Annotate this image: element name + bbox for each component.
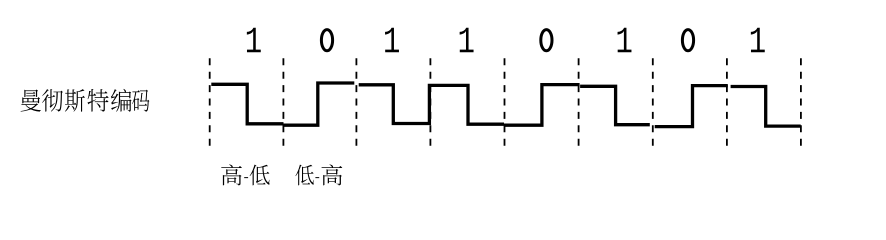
dashed bit boundary line 3 <box>429 58 431 147</box>
title text 曼彻斯特编码 (Manchester encoding), drawn as vector glyph outlines <box>21 89 150 112</box>
bit value "1" above cell 0 <box>247 28 261 53</box>
label char 彻 <box>42 89 63 112</box>
bit value "0" above cell 4 <box>541 30 552 51</box>
dashed bit boundary line 2 <box>355 58 357 147</box>
label2 高 <box>321 164 342 185</box>
dashed bit boundary line 1 <box>282 58 284 147</box>
waveform bit5 value 1 <box>580 86 650 124</box>
waveform bit4 value 0 <box>504 85 580 126</box>
bit value "0" above cell 1 <box>321 30 332 51</box>
label2 hyphen <box>315 177 319 178</box>
dashed bit boundary line 5 <box>578 58 580 147</box>
label char 编 <box>111 89 132 112</box>
label char 曼 <box>21 89 41 111</box>
annotation 高-低 (high-to-low) <box>221 164 269 185</box>
dashed bit boundary line 4 <box>504 58 506 147</box>
label2 低 <box>295 165 313 186</box>
bit value "0" above cell 6 <box>682 30 693 51</box>
dashed bit boundary line 0 <box>209 58 211 147</box>
bit value "1" above cell 5 <box>618 28 632 53</box>
label1 hyphen <box>244 177 248 178</box>
dashed bit boundary line 6 <box>652 58 654 147</box>
dashed bit boundary line 7 <box>726 58 728 147</box>
label char 码 <box>132 90 149 112</box>
waveform bit6 value 0 <box>655 86 728 127</box>
waveform bits2-3 values 1,1 <box>359 85 504 124</box>
label1 高 <box>221 164 242 185</box>
dashed bit boundary line 8 <box>800 58 802 147</box>
annotation 低-高 (low-to-high) <box>295 164 342 185</box>
bit value "1" above cell 3 <box>460 28 474 53</box>
waveform bit1 value 0: low half then high half <box>284 83 355 125</box>
bit value "1" above cell 2 <box>385 28 399 53</box>
waveform bit7 value 1 <box>731 87 801 127</box>
label char 斯 <box>65 89 85 112</box>
bit value "1" above cell 7 <box>751 28 765 53</box>
waveform bit0 value 1: high half then low half <box>211 84 283 124</box>
label char 特 <box>87 89 108 112</box>
label1 低 <box>250 165 270 186</box>
